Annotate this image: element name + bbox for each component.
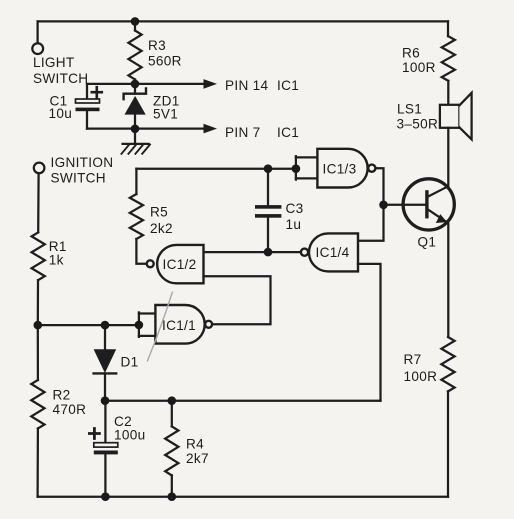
svg-text:R4: R4: [186, 436, 204, 451]
wire right supply drop: [447, 21, 449, 36]
svg-text:R5: R5: [150, 204, 168, 219]
arrow PIN 14: [204, 79, 218, 89]
wire node to D1: [104, 325, 106, 349]
wire R7 to bottom rail: [447, 391, 449, 496]
arrow PIN 7: [204, 124, 218, 134]
svg-text:Q1: Q1: [418, 235, 437, 250]
node node top rail / R3: [131, 17, 140, 26]
svg-text:100R: 100R: [404, 369, 438, 384]
node node D1 / C2 / row: [101, 396, 110, 405]
svg-text:R7: R7: [404, 352, 422, 367]
resistor R3: [128, 31, 141, 80]
transistor Q1: [403, 179, 454, 230]
resistor R1: [32, 232, 45, 280]
svg-text:PIN 14: PIN 14: [225, 78, 268, 93]
svg-text:470R: 470R: [53, 402, 87, 417]
node node Q1 base: [379, 201, 388, 210]
resistor R4: [165, 426, 178, 475]
wire to R4: [171, 401, 173, 427]
wire bottom rail: [38, 496, 448, 498]
wire IC1/4 output to IC1/2 input: [204, 251, 301, 253]
wire IC1/4 bottom input loop: [358, 264, 381, 401]
wire R1 to node: [37, 280, 39, 325]
node node C2 bottom: [101, 492, 110, 501]
svg-text:IC1/4: IC1/4: [316, 245, 350, 260]
svg-text:C3: C3: [286, 201, 304, 216]
wire R3 drop: [134, 21, 136, 30]
svg-text:100u: 100u: [114, 428, 145, 443]
svg-text:R6: R6: [402, 45, 420, 60]
svg-text:3–50R: 3–50R: [397, 116, 439, 131]
resistor R7: [441, 337, 454, 391]
svg-text:IC1: IC1: [277, 125, 299, 140]
wire ignition to R1: [37, 173, 40, 232]
wire pin7 rail: [87, 127, 204, 129]
crease artifact (not a component): [147, 292, 172, 362]
svg-text:100R: 100R: [402, 60, 436, 75]
node node R4 bottom: [168, 492, 177, 501]
svg-text:560R: 560R: [148, 53, 182, 68]
wire top supply rail: [38, 20, 448, 22]
node node C3 top: [264, 164, 273, 173]
node node C3 bottom: [264, 248, 273, 257]
capacitor C1: [76, 84, 102, 129]
gate IC1/2: [147, 245, 204, 283]
svg-text:10u: 10u: [49, 106, 73, 121]
wire R5/C3/IC1-3 node row: [136, 168, 296, 170]
node node D1 top: [101, 321, 110, 330]
wire base node to Q1: [384, 204, 426, 206]
light switch terminal: [32, 43, 43, 54]
wire node row to IC1/1 inputs: [38, 324, 139, 326]
svg-text:R3: R3: [148, 38, 166, 53]
wire IC1/1 input stubs: [139, 314, 156, 336]
gate IC1/3: [317, 149, 375, 188]
wire node to R2: [37, 325, 39, 380]
svg-text:IGNITION: IGNITION: [51, 155, 114, 170]
wire R5 to IC1/2 output: [136, 239, 146, 264]
capacitor C3: [255, 169, 281, 252]
svg-text:5V1: 5V1: [153, 107, 178, 122]
node node R4 top: [168, 396, 177, 405]
wire light switch stub: [36, 21, 38, 43]
wire Q1 emitter to R7: [447, 224, 449, 337]
node node pin7 / ZD1 / ground: [131, 125, 140, 134]
ignition switch terminal: [34, 163, 45, 174]
svg-text:R2: R2: [53, 387, 71, 402]
node node R3 / pin14 / ZD1: [131, 80, 140, 89]
resistor R6: [442, 36, 455, 81]
loudspeaker LS1: [440, 93, 472, 140]
svg-text:IC1/2: IC1/2: [163, 257, 197, 272]
wire pin14 rail: [87, 83, 204, 85]
resistor R2: [31, 380, 44, 429]
svg-text:IC1: IC1: [277, 78, 299, 93]
svg-text:2k2: 2k2: [150, 221, 173, 236]
gate IC1/1: [155, 305, 212, 344]
node node IC1/3 inputs: [292, 164, 301, 173]
wire R4 to bottom rail: [171, 475, 173, 496]
ground: [121, 144, 150, 154]
wire speaker to Q1 collector: [447, 128, 449, 187]
wire IC1/2 bottom input to IC1/1 output: [204, 276, 271, 324]
svg-text:IC1/1: IC1/1: [162, 318, 196, 333]
svg-text:SWITCH: SWITCH: [51, 170, 106, 185]
wire IC1/3 input stubs: [296, 157, 318, 178]
wire D1/C2 node row: [105, 400, 381, 402]
zener diode ZD1: [124, 84, 146, 129]
capacitor C2: [89, 401, 117, 497]
gate IC1/4: [301, 233, 358, 271]
svg-text:2k7: 2k7: [186, 451, 209, 466]
node node R1 / row: [34, 321, 43, 330]
svg-text:IC1/3: IC1/3: [323, 161, 357, 176]
svg-text:SWITCH: SWITCH: [33, 71, 88, 86]
wire IC1/3 output to base node and IC1/4 input: [358, 168, 384, 241]
op wire IC1/3 input tie bar: [295, 156, 297, 179]
resistor R5: [130, 194, 143, 239]
svg-text:LS1: LS1: [397, 102, 422, 117]
wire to R5: [135, 169, 137, 194]
svg-text:LIGHT: LIGHT: [33, 55, 75, 70]
wire R2 to bottom rail: [36, 429, 39, 497]
svg-text:PIN 7: PIN 7: [225, 125, 261, 140]
svg-text:D1: D1: [121, 355, 139, 370]
wire IC1/1 input tie bar: [138, 312, 140, 337]
diode D1: [94, 349, 117, 400]
svg-text:1k: 1k: [49, 252, 64, 267]
node node IC1/1 inputs: [135, 321, 144, 330]
wire zener to ground: [134, 129, 136, 144]
svg-text:1u: 1u: [286, 217, 302, 232]
